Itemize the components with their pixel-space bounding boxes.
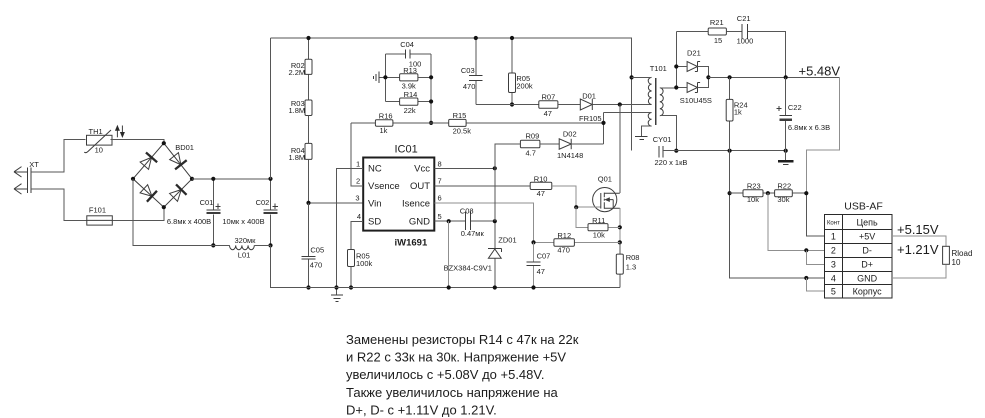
svg-text:200k: 200k (516, 81, 533, 90)
pin 2 (351, 123, 363, 186)
arrows up/down near TH1 (115, 125, 125, 138)
thermistor TH1 (84, 127, 112, 155)
svg-text:R21: R21 (710, 18, 724, 27)
svg-text:47: 47 (544, 109, 552, 118)
svg-text:Isence: Isence (402, 198, 430, 209)
svg-text:Vin: Vin (368, 198, 382, 209)
+5V output rail (708, 76, 839, 78)
svg-text:iW1691: iW1691 (395, 237, 428, 248)
note text block (346, 332, 579, 417)
svg-text:ZD01: ZD01 (498, 236, 516, 245)
resistor R03 1.8M (289, 99, 313, 143)
wire plug bottom to F101 (31, 189, 87, 221)
resistor R12 470 (531, 231, 619, 254)
svg-text:C05: C05 (310, 245, 324, 254)
pin 4 (351, 212, 363, 250)
svg-text:1k: 1k (734, 108, 742, 117)
svg-text:470: 470 (463, 82, 476, 91)
svg-text:BD01: BD01 (175, 143, 194, 152)
wire F101 to bridge bottom (112, 207, 164, 220)
svg-text:220 x 1кВ: 220 x 1кВ (655, 158, 688, 167)
svg-text:GND: GND (409, 217, 430, 228)
wire bridge DC+ rail (192, 178, 271, 180)
ground at primary bus (331, 285, 343, 301)
svg-text:L01: L01 (238, 250, 251, 259)
connector USB-AF table (824, 201, 892, 298)
resistor Rload 10 (892, 236, 973, 278)
resistor R07 47 (539, 93, 581, 118)
pin 6 Isence (434, 194, 533, 243)
svg-text:XT: XT (29, 160, 39, 169)
svg-text:D-: D- (862, 246, 872, 256)
svg-text:1: 1 (356, 159, 360, 168)
svg-text:6: 6 (438, 194, 442, 203)
svg-text:R13: R13 (403, 66, 417, 75)
svg-text:6.8мк x 6.3В: 6.8мк x 6.3В (788, 123, 830, 132)
capacitor C05 (302, 203, 325, 290)
svg-text:FR105: FR105 (579, 114, 602, 123)
svg-text:R16: R16 (379, 111, 393, 120)
svg-text:4.7: 4.7 (526, 149, 536, 158)
svg-text:C08: C08 (460, 207, 474, 216)
wire +5V step to USB pin1 (806, 77, 839, 193)
pin 7 OUT (434, 176, 530, 185)
wire Vcc node vertical (495, 144, 521, 221)
wire divider to D- (768, 193, 824, 250)
svg-text:1k: 1k (380, 126, 388, 135)
svg-text:0.47мк: 0.47мк (461, 229, 485, 238)
resistor R04 1.8M (289, 143, 313, 203)
wire rail to C02 (270, 38, 272, 179)
capacitor C04 (385, 40, 431, 68)
wire C03 to R07 (476, 104, 539, 106)
svg-text:22k: 22k (404, 106, 416, 115)
svg-text:470: 470 (310, 260, 323, 269)
svg-text:R07: R07 (542, 93, 556, 102)
pin 5 GND (434, 212, 495, 223)
svg-text:1: 1 (831, 232, 836, 242)
svg-text:10мк x 400В: 10мк x 400В (222, 217, 264, 226)
diode D21 S10U45S dual schottky (674, 32, 712, 106)
svg-text:C07: C07 (537, 252, 551, 261)
wire pin5 to bus (448, 221, 450, 287)
capacitor C03 470 (461, 36, 483, 105)
ground at aux winding (635, 126, 652, 140)
svg-text:T101: T101 (650, 64, 667, 73)
wire D- to D+ (806, 250, 824, 264)
wire plug top to TH1 (31, 140, 85, 172)
svg-text:OUT: OUT (410, 181, 430, 192)
svg-text:R15: R15 (453, 111, 467, 120)
svg-text:2.2M: 2.2M (289, 68, 306, 77)
svg-text:10k: 10k (747, 195, 759, 204)
svg-text:Vcc: Vcc (414, 164, 430, 175)
bridge rectifier BD01 (131, 141, 194, 209)
zener diode ZD01 BZX384-C9V1 (444, 219, 517, 290)
wire HV top rail (271, 38, 632, 151)
svg-text:и R22 с 33к на 30к. Напряжение: и R22 с 33к на 30к. Напряжение +5V (346, 350, 566, 365)
svg-text:S10U45S: S10U45S (680, 96, 712, 105)
svg-text:увеличилось с +5.08V до +5.48V: увеличилось с +5.08V до +5.48V. (346, 367, 545, 382)
svg-text:USB-AF: USB-AF (844, 201, 883, 213)
capacitor C08 0.47uF (460, 207, 485, 239)
svg-text:C01: C01 (200, 198, 214, 207)
svg-text:Корпус: Корпус (853, 287, 883, 297)
diode D02 1N4148 (557, 113, 606, 160)
svg-text:47: 47 (537, 189, 545, 198)
svg-text:D+: D+ (861, 260, 873, 270)
svg-text:SD: SD (368, 217, 381, 228)
svg-text:D+, D- с +1.11V до 1.21V.: D+, D- с +1.11V до 1.21V. (346, 402, 497, 417)
transformer T101 (604, 64, 679, 153)
svg-text:100k: 100k (356, 259, 373, 268)
svg-text:1N4148: 1N4148 (557, 151, 583, 160)
resistor R13 3.9k (385, 54, 431, 102)
inductor L01 (230, 236, 257, 260)
svg-text:5: 5 (831, 287, 836, 297)
svg-text:Цепь: Цепь (856, 217, 878, 227)
svg-text:R22: R22 (777, 181, 791, 190)
svg-text:Конт: Конт (827, 221, 840, 227)
fuse F101 (87, 206, 113, 225)
capacitor C22 6.8uF 6.3V (776, 77, 830, 150)
svg-text:Q01: Q01 (598, 175, 612, 184)
svg-text:10: 10 (95, 146, 103, 155)
svg-text:1.8M: 1.8M (289, 106, 306, 115)
svg-text:IC01: IC01 (395, 143, 418, 155)
resistor R23 10k (730, 181, 775, 204)
resistor R02 2.2M (289, 36, 313, 100)
transistor Q01 MOSFET (574, 175, 620, 212)
pin 3 (355, 194, 359, 203)
svg-text:10k: 10k (593, 231, 605, 240)
svg-text:BZX384-C9V1: BZX384-C9V1 (444, 264, 492, 273)
resistor R11 10k (576, 207, 620, 239)
svg-text:470: 470 (557, 246, 570, 255)
svg-text:+5.15V: +5.15V (897, 222, 939, 237)
svg-text:6.8мк x 400В: 6.8мк x 400В (167, 217, 211, 226)
svg-text:10: 10 (952, 258, 961, 267)
wire secondary ground to USB GND (730, 151, 825, 278)
svg-text:1.8M: 1.8M (289, 153, 306, 162)
svg-text:8: 8 (438, 159, 442, 168)
resistor R05 100k (348, 250, 373, 290)
ground at R13 (373, 72, 385, 83)
svg-text:C02: C02 (256, 198, 270, 207)
resistor R14 22k (383, 54, 433, 125)
capacitor C02 (222, 177, 277, 248)
svg-text:NC: NC (368, 164, 382, 175)
wire GND to Korpus (806, 278, 824, 291)
svg-text:C21: C21 (737, 14, 751, 23)
capacitor C21 1000 (737, 14, 786, 77)
connector XT plug (14, 160, 39, 194)
svg-text:15: 15 (714, 36, 722, 45)
svg-text:30k: 30k (777, 195, 789, 204)
resistor R10 47 (530, 175, 576, 208)
svg-text:47: 47 (537, 267, 545, 276)
svg-text:Также увеличилось напряжение н: Также увеличилось напряжение на (346, 385, 559, 400)
svg-text:+5.48V: +5.48V (799, 64, 841, 79)
svg-text:Vsence: Vsence (368, 181, 400, 192)
svg-text:+1.21V: +1.21V (897, 242, 939, 257)
wire Vin pin3 line (309, 202, 364, 204)
svg-text:C22: C22 (788, 103, 802, 112)
svg-text:CY01: CY01 (653, 135, 672, 144)
pin 8 Vcc (434, 159, 497, 170)
svg-text:5: 5 (438, 212, 442, 221)
svg-text:+5V: +5V (859, 232, 875, 242)
primary bottom bus (271, 245, 620, 287)
wire drain up (619, 105, 621, 194)
wire bridge DC- down and bottom rail (133, 179, 271, 246)
capacitor C07 47 (527, 242, 551, 289)
svg-text:R11: R11 (592, 216, 605, 225)
svg-text:2: 2 (356, 176, 360, 185)
svg-text:C03: C03 (461, 66, 475, 75)
svg-text:TH1: TH1 (89, 127, 103, 136)
svg-text:7: 7 (438, 176, 442, 185)
pin 1 (337, 159, 364, 287)
svg-text:Rload: Rload (952, 249, 973, 258)
svg-text:R12: R12 (557, 231, 571, 240)
svg-text:D02: D02 (563, 129, 577, 138)
resistor R22 30k (775, 181, 809, 204)
svg-text:3: 3 (831, 260, 836, 270)
resistor R15 20.5k (431, 111, 603, 135)
svg-text:GND: GND (857, 273, 878, 283)
svg-text:R08: R08 (626, 253, 640, 262)
resistor R05 200k (509, 36, 533, 107)
svg-text:R14: R14 (404, 90, 418, 99)
svg-text:Заменены резисторы R14 с 47к н: Заменены резисторы R14 с 47к на 22к (346, 332, 579, 347)
diode D01 FR105 (579, 75, 652, 123)
ground at C22 (778, 151, 794, 165)
op-amp controller IC01 iW1691 (363, 143, 434, 248)
svg-text:3: 3 (355, 194, 359, 203)
svg-text:C04: C04 (400, 40, 414, 49)
svg-text:1.3: 1.3 (626, 263, 636, 272)
wire source down (619, 208, 621, 242)
resistor R08 1.3 (616, 242, 639, 287)
svg-text:320мк: 320мк (235, 236, 257, 245)
svg-text:2: 2 (831, 246, 836, 256)
wire TH1 to bridge top (111, 140, 164, 144)
svg-text:4: 4 (831, 273, 836, 283)
svg-text:D21: D21 (687, 48, 701, 57)
svg-text:F101: F101 (89, 206, 106, 215)
svg-text:R23: R23 (747, 181, 761, 190)
resistor R21 15 (676, 18, 742, 45)
svg-text:R10: R10 (534, 175, 548, 184)
resistor R24 1k (726, 77, 747, 150)
svg-text:4: 4 (357, 212, 361, 221)
svg-text:20.5k: 20.5k (453, 126, 472, 135)
capacitor CY01 220x1kV (653, 135, 788, 167)
svg-text:R09: R09 (526, 132, 540, 141)
resistor R16 1k (351, 111, 431, 135)
svg-text:1000: 1000 (737, 37, 754, 46)
resistor R09 4.7 (520, 132, 559, 158)
svg-text:D01: D01 (582, 92, 596, 101)
capacitor C01 (167, 177, 221, 248)
